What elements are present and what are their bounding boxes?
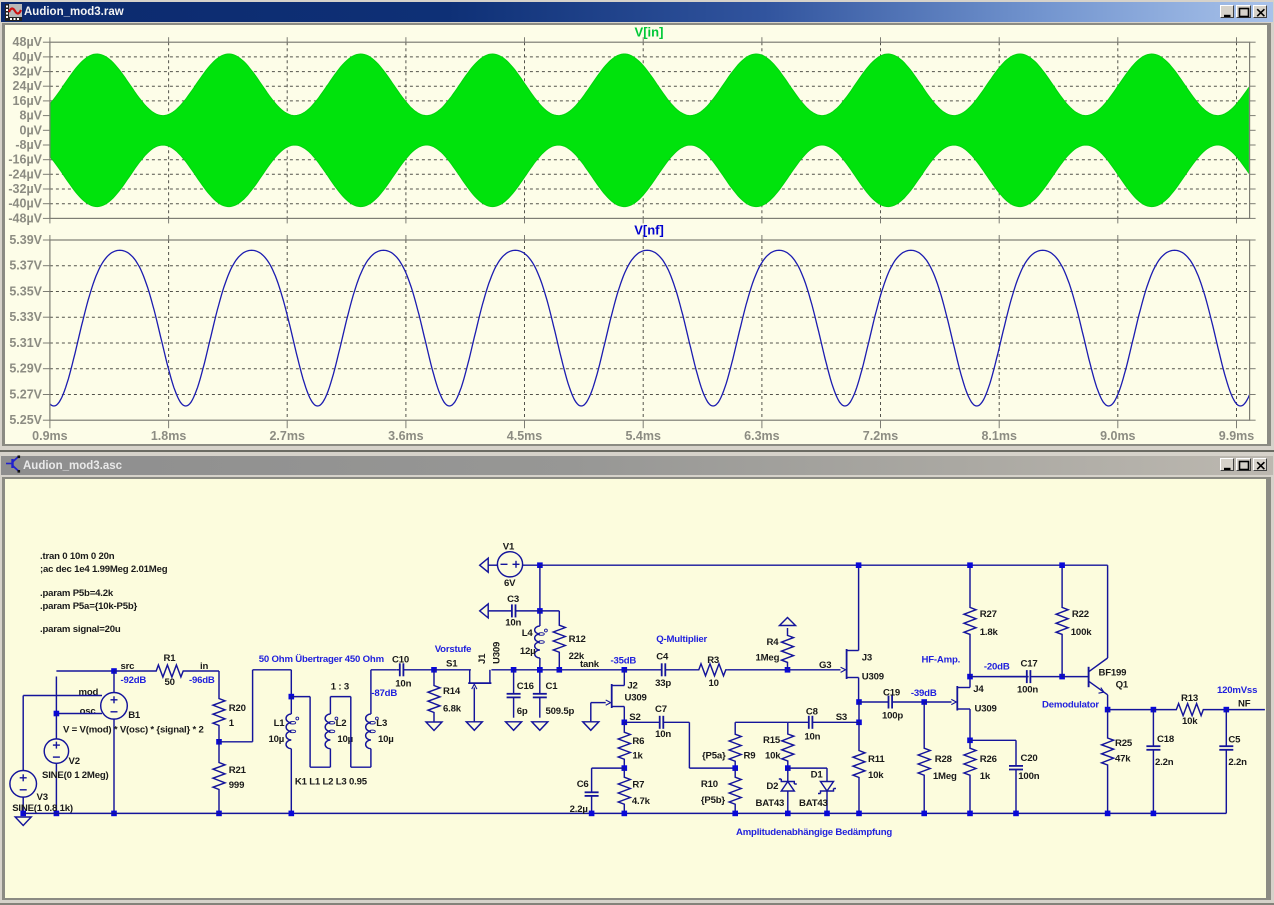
svg-text:9.9ms: 9.9ms <box>1219 429 1254 443</box>
ground flag R4 <box>780 618 796 626</box>
svg-text:J3: J3 <box>862 653 872 664</box>
resistor R3 <box>697 664 728 676</box>
svg-text:1: 1 <box>229 718 235 729</box>
svg-text:C4: C4 <box>656 652 669 663</box>
wire mod <box>23 695 102 697</box>
capacitor C8 <box>788 721 809 723</box>
svg-text:C1: C1 <box>546 681 559 692</box>
resistor R11 <box>853 722 865 813</box>
wire Q1 collector <box>1107 565 1109 658</box>
wire L1 top <box>290 670 292 697</box>
svg-text:BAT43: BAT43 <box>756 798 785 809</box>
svg-text:-24µV: -24µV <box>8 167 42 181</box>
svg-text:1.8ms: 1.8ms <box>151 429 186 443</box>
svg-text:C19: C19 <box>883 688 900 699</box>
svg-text:2.7ms: 2.7ms <box>269 429 304 443</box>
diode D2 BAT43 <box>781 782 794 792</box>
svg-text:-32µV: -32µV <box>8 182 42 196</box>
svg-text:SINE(0 1 2Meg): SINE(0 1 2Meg) <box>42 770 109 781</box>
resistor R9 <box>729 722 741 768</box>
resistor R1 <box>114 665 219 677</box>
svg-text:tank: tank <box>580 659 600 670</box>
svg-text:.param signal=20u: .param signal=20u <box>40 624 121 635</box>
resistor R12 <box>540 610 559 612</box>
wire tank 1 <box>514 669 540 671</box>
capacitor C7 <box>624 721 659 723</box>
svg-text:10µ: 10µ <box>269 734 285 745</box>
svg-text:Q1: Q1 <box>1116 680 1129 691</box>
svg-text:-8µV: -8µV <box>15 138 42 152</box>
svg-text:509.5p: 509.5p <box>546 706 575 717</box>
wire to C6 <box>592 767 625 769</box>
junction L1 top <box>289 694 295 700</box>
svg-text:-40µV: -40µV <box>8 197 42 211</box>
svg-text:2.2µ: 2.2µ <box>570 804 588 815</box>
svg-text:J4: J4 <box>973 684 984 695</box>
svg-text:Demodulator: Demodulator <box>1042 700 1099 711</box>
junction C16 <box>511 667 517 673</box>
resistor R10 <box>729 768 741 813</box>
wire osc stub <box>55 677 57 714</box>
svg-text:B1: B1 <box>128 710 141 721</box>
svg-text:S3: S3 <box>836 712 847 723</box>
svg-text:Q-Multiplier: Q-Multiplier <box>656 634 707 645</box>
capacitor C3 <box>488 610 512 612</box>
svg-text:R9: R9 <box>744 751 756 762</box>
capacitor C18 <box>1152 710 1154 747</box>
capacitor C10 <box>397 669 400 671</box>
svg-text:U309: U309 <box>492 642 503 664</box>
junction C6 ground <box>589 811 595 817</box>
svg-text:-20dB: -20dB <box>984 662 1010 673</box>
window 2: schematic Audion_mod3.asc <box>0 450 1274 905</box>
svg-text:999: 999 <box>229 780 244 791</box>
wire base Q1 <box>1062 676 1089 678</box>
svg-text:1Meg: 1Meg <box>756 653 780 664</box>
svg-text:10n: 10n <box>655 729 671 740</box>
svg-text:-87dB: -87dB <box>371 688 397 699</box>
wire S2-C8 mid <box>735 721 788 723</box>
node S2 <box>622 720 628 726</box>
svg-text:BF199: BF199 <box>1099 668 1127 679</box>
svg-text:{P5a}: {P5a} <box>702 751 726 762</box>
svg-text:1k: 1k <box>632 751 643 762</box>
junction L1 ground <box>289 811 295 817</box>
svg-text:.param P5a={10k-P5b}: .param P5a={10k-P5b} <box>40 601 138 612</box>
svg-text:L3: L3 <box>376 718 387 729</box>
junction C1 <box>537 667 543 673</box>
wire J1 drain to tank <box>491 669 513 671</box>
svg-text:100n: 100n <box>1018 771 1039 782</box>
svg-text:-92dB: -92dB <box>121 675 147 686</box>
wire J3 drain to rail <box>858 565 860 650</box>
svg-text:8µV: 8µV <box>20 109 43 123</box>
node R20-R21 <box>216 739 222 745</box>
svg-text:Amplitudenabhängige Bedämpfung: Amplitudenabhängige Bedämpfung <box>736 827 892 838</box>
voltage source V2 <box>55 714 57 739</box>
svg-text:5.4ms: 5.4ms <box>625 429 660 443</box>
svg-text:100p: 100p <box>882 711 903 722</box>
junction R11 ground <box>856 811 862 817</box>
wire D1 top <box>788 767 827 769</box>
svg-text:12µ: 12µ <box>520 646 536 657</box>
ground J1 gate <box>473 688 475 722</box>
svg-text:V3: V3 <box>37 792 48 803</box>
svg-text:0µV: 0µV <box>20 123 43 137</box>
svg-text:U309: U309 <box>975 704 997 715</box>
junction V2 ground <box>54 811 60 817</box>
resistor R14 <box>428 670 440 713</box>
diode D1 BAT43 <box>821 782 834 792</box>
svg-text:L4: L4 <box>522 628 534 639</box>
svg-text:R6: R6 <box>632 736 644 747</box>
svg-text:5.29V: 5.29V <box>9 362 42 376</box>
svg-text:1k: 1k <box>980 771 991 782</box>
resistor R27 <box>964 565 976 676</box>
ground C16 <box>506 722 522 731</box>
svg-text:5.39V: 5.39V <box>9 233 42 247</box>
svg-text:-39dB: -39dB <box>911 688 937 699</box>
wire in to R20 <box>218 671 220 689</box>
wire V1 to rail <box>523 564 540 566</box>
svg-text:120mVss: 120mVss <box>1217 685 1257 696</box>
wire C7 dogleg <box>688 722 690 768</box>
svg-text:5.37V: 5.37V <box>9 259 42 273</box>
svg-text:{P5b}: {P5b} <box>701 795 726 806</box>
svg-text:V2: V2 <box>69 756 80 767</box>
junction R9 bottom <box>732 765 738 771</box>
svg-text:.tran 0 10m 0 20n: .tran 0 10m 0 20n <box>40 551 115 562</box>
wire to C20 <box>970 739 1016 741</box>
svg-text:33p: 33p <box>655 678 671 689</box>
svg-text:10: 10 <box>709 678 719 689</box>
svg-text:24µV: 24µV <box>13 79 43 93</box>
ground symbol main <box>15 817 31 826</box>
junction osc <box>54 711 60 717</box>
resistor R20 <box>213 689 225 735</box>
capacitor C20 <box>1015 739 1017 741</box>
wire NF <box>1226 709 1265 711</box>
voltage source V3 <box>22 696 24 771</box>
resistor R13 <box>1153 704 1226 716</box>
svg-text:10µ: 10µ <box>378 734 394 745</box>
svg-text:1.8k: 1.8k <box>980 627 999 638</box>
svg-text:V1: V1 <box>503 542 515 553</box>
ground rail <box>23 812 1226 814</box>
capacitor C1 <box>539 670 541 694</box>
svg-text:D1: D1 <box>811 770 824 781</box>
resistor R25 <box>1102 710 1114 814</box>
svg-text:4.7k: 4.7k <box>632 796 651 807</box>
supply rail <box>540 564 1108 566</box>
svg-text:C18: C18 <box>1157 734 1175 745</box>
junction L4 tank <box>537 667 543 673</box>
wire L1-L2 link <box>291 696 310 698</box>
wire emitter to C18 <box>1108 709 1154 711</box>
voltage source V1 <box>497 552 522 577</box>
svg-text:C10: C10 <box>392 655 409 666</box>
junction C20 ground <box>1013 811 1019 817</box>
wire S1 to J1 <box>434 669 471 671</box>
inductor L1 <box>290 697 292 714</box>
svg-text:32µV: 32µV <box>13 65 43 79</box>
svg-text:16µV: 16µV <box>13 94 43 108</box>
svg-text:U309: U309 <box>625 693 647 704</box>
svg-text:10n: 10n <box>505 618 521 629</box>
capacitor C16 <box>513 670 515 694</box>
svg-text:D2: D2 <box>766 781 778 792</box>
junction R26 ground <box>967 811 973 817</box>
svg-text:R26: R26 <box>980 754 997 765</box>
svg-text:HF-Amp.: HF-Amp. <box>922 655 961 666</box>
svg-text:1 : 3: 1 : 3 <box>331 682 349 693</box>
junction R6 bottom <box>622 765 628 771</box>
svg-text:;ac dec 1e4 1.99Meg 2.01Meg: ;ac dec 1e4 1.99Meg 2.01Meg <box>40 564 168 575</box>
wire to transformer <box>219 741 253 743</box>
junction R10 ground <box>732 811 738 817</box>
wire to J4 gate <box>924 701 951 703</box>
svg-text:6V: 6V <box>504 578 516 589</box>
svg-text:5.31V: 5.31V <box>9 336 42 350</box>
junction J2 drain <box>622 667 628 673</box>
resistor R15 <box>782 722 794 768</box>
junction C18 <box>1151 707 1157 713</box>
node src <box>111 668 117 674</box>
svg-text:mod: mod <box>79 687 99 698</box>
behavioral source B1 <box>113 671 115 693</box>
svg-text:S2: S2 <box>629 712 640 723</box>
capacitor C17 <box>1000 676 1027 678</box>
svg-text:V = V(mod) * V(osc) * {signal}: V = V(mod) * V(osc) * {signal} * 2 <box>63 725 204 736</box>
svg-text:R12: R12 <box>569 634 586 645</box>
svg-text:R14: R14 <box>443 686 461 697</box>
junction C3 node <box>537 608 543 614</box>
svg-text:47k: 47k <box>1115 754 1131 765</box>
inductor L4 <box>539 611 541 626</box>
wire J3 source down <box>858 678 860 703</box>
svg-text:R11: R11 <box>868 754 885 765</box>
svg-text:10k: 10k <box>868 770 884 781</box>
svg-text:R4: R4 <box>767 637 780 648</box>
svg-text:R22: R22 <box>1072 609 1089 620</box>
svg-text:C5: C5 <box>1228 735 1241 746</box>
svg-text:R25: R25 <box>1115 738 1133 749</box>
ground flag C3 <box>480 604 489 618</box>
svg-text:6.3ms: 6.3ms <box>744 429 779 443</box>
junction Q1 emitter <box>1105 707 1111 713</box>
svg-text:R7: R7 <box>632 780 644 791</box>
svg-text:-35dB: -35dB <box>611 656 637 667</box>
svg-text:C20: C20 <box>1021 753 1038 764</box>
svg-text:2.2n: 2.2n <box>1228 757 1247 768</box>
svg-text:S1: S1 <box>446 659 458 670</box>
svg-text:10n: 10n <box>395 679 411 690</box>
capacitor C6 <box>591 790 593 792</box>
svg-text:L1: L1 <box>274 718 286 729</box>
junction V1 rail <box>537 562 543 568</box>
junction C18 ground <box>1151 811 1157 817</box>
svg-text:0.9ms: 0.9ms <box>32 429 67 443</box>
svg-text:NF: NF <box>1238 699 1251 710</box>
svg-text:48µV: 48µV <box>13 35 43 49</box>
capacitor C5 <box>1225 710 1227 747</box>
svg-text:R1: R1 <box>164 653 177 664</box>
svg-text:8.1ms: 8.1ms <box>981 429 1016 443</box>
svg-text:V[nf]: V[nf] <box>634 223 664 238</box>
resistor R22 <box>1056 565 1068 676</box>
svg-text:10n: 10n <box>804 732 820 743</box>
junction J4 drain <box>967 674 973 680</box>
svg-text:.param P5b=4.2k: .param P5b=4.2k <box>40 588 114 599</box>
wire J4 drain up <box>969 677 971 688</box>
wire R27 node to C17 <box>970 676 1029 678</box>
resistor R7 <box>618 768 630 813</box>
svg-text:-16µV: -16µV <box>8 153 42 167</box>
capacitor C19 <box>859 701 889 703</box>
svg-text:U309: U309 <box>862 672 884 683</box>
junction D1 ground <box>824 811 830 817</box>
svg-text:C3: C3 <box>507 594 519 605</box>
svg-text:C17: C17 <box>1021 659 1038 670</box>
junction R15 bottom <box>785 765 791 771</box>
svg-text:L2: L2 <box>336 718 347 729</box>
svg-text:6.8k: 6.8k <box>443 704 462 715</box>
svg-text:R20: R20 <box>229 703 246 714</box>
inductor L2 <box>325 714 330 749</box>
resistor R28 <box>918 702 930 813</box>
svg-text:3.6ms: 3.6ms <box>388 429 423 443</box>
jfet J2 U309 <box>623 670 625 686</box>
wire tank 2 <box>540 669 625 671</box>
svg-text:-96dB: -96dB <box>189 675 215 686</box>
jfet J3 U309 <box>846 649 848 679</box>
svg-text:5.33V: 5.33V <box>9 310 42 324</box>
wire R3 to G3 <box>728 669 788 671</box>
svg-text:4.5ms: 4.5ms <box>507 429 542 443</box>
svg-text:R21: R21 <box>229 765 247 776</box>
junction D2 ground <box>785 811 791 817</box>
wire J2 gate <box>591 702 606 704</box>
junction C17 right <box>1059 674 1065 680</box>
svg-text:-48µV: -48µV <box>8 211 42 225</box>
svg-text:6p: 6p <box>517 706 528 717</box>
ground flag V1 <box>488 564 497 566</box>
window 1: waveform viewer Audion_mod3.raw <box>0 0 1274 450</box>
ground R14 <box>433 713 435 722</box>
capacitor C4 <box>624 669 661 671</box>
svg-text:C6: C6 <box>577 779 589 790</box>
svg-text:C8: C8 <box>806 707 819 718</box>
svg-text:5.27V: 5.27V <box>9 388 42 402</box>
resistor R4 <box>782 628 794 670</box>
junction J3 rail <box>856 562 862 568</box>
junction R25 ground <box>1105 811 1111 817</box>
jfet J4 U309 <box>956 686 958 711</box>
junction B1 ground <box>111 811 117 817</box>
svg-text:C7: C7 <box>655 704 667 715</box>
svg-text:in: in <box>200 661 208 672</box>
junction R21 ground <box>216 811 222 817</box>
junction R7 ground <box>622 811 628 817</box>
wire J2 source to S2 <box>623 707 625 723</box>
junction C19 node <box>856 699 862 705</box>
wire L3 top <box>370 670 372 714</box>
wire L2-L3 link <box>329 697 331 714</box>
junction V3 ground <box>20 811 26 817</box>
junction R12 tank <box>557 667 563 673</box>
wire rail down to C3 node <box>539 565 541 611</box>
svg-text:R28: R28 <box>935 754 953 765</box>
svg-text:7.2ms: 7.2ms <box>863 429 898 443</box>
wire to S3 <box>858 702 860 722</box>
svg-text:5.25V: 5.25V <box>9 413 42 427</box>
svg-text:R10: R10 <box>701 779 718 790</box>
svg-text:R13: R13 <box>1181 693 1198 704</box>
junction R28 node <box>921 699 927 705</box>
junction R28 ground <box>921 811 927 817</box>
junction G3 <box>785 667 791 673</box>
svg-text:50: 50 <box>165 677 175 688</box>
wire src top <box>56 670 114 672</box>
node S1 <box>431 667 437 673</box>
wire osc <box>56 713 102 715</box>
svg-text:R27: R27 <box>980 609 997 620</box>
ground J2 gate <box>583 722 599 731</box>
resistor R6 <box>618 722 630 768</box>
resistor R26 <box>964 740 976 813</box>
wire Q1 emitter <box>1107 695 1109 710</box>
svg-text:10k: 10k <box>1182 716 1198 727</box>
svg-text:J1: J1 <box>477 653 488 664</box>
svg-text:1Meg: 1Meg <box>933 771 957 782</box>
svg-text:40µV: 40µV <box>13 50 43 64</box>
inductor L3 <box>366 714 371 749</box>
svg-text:R15: R15 <box>763 735 781 746</box>
wire J4 source down <box>969 709 971 740</box>
svg-text:BAT43: BAT43 <box>799 798 828 809</box>
node S3 <box>856 720 862 726</box>
svg-text:Vorstufe: Vorstufe <box>435 644 472 655</box>
svg-text:J2: J2 <box>627 681 637 692</box>
svg-text:9.0ms: 9.0ms <box>1100 429 1135 443</box>
svg-text:100k: 100k <box>1071 627 1092 638</box>
resistor R21 <box>213 742 225 814</box>
svg-text:K1 L1 L2 L3 0.95: K1 L1 L2 L3 0.95 <box>295 777 368 788</box>
svg-text:50 Ohm Übertrager 450 Ohm: 50 Ohm Übertrager 450 Ohm <box>259 654 384 665</box>
junction R26 node <box>967 738 973 744</box>
junction R27 rail <box>967 562 973 568</box>
svg-text:5.35V: 5.35V <box>9 285 42 299</box>
svg-text:R3: R3 <box>707 655 719 666</box>
svg-text:100n: 100n <box>1017 685 1038 696</box>
ground C1 <box>532 722 548 731</box>
svg-text:C16: C16 <box>517 681 534 692</box>
junction R22 rail <box>1059 562 1065 568</box>
transistor Q1 BF199 <box>1088 667 1090 687</box>
wire G3 to J3 <box>788 669 841 671</box>
svg-text:2.2n: 2.2n <box>1155 757 1174 768</box>
svg-text:V[in]: V[in] <box>635 25 664 40</box>
jfet J1 U309 <box>468 682 491 684</box>
junction C5 <box>1224 707 1230 713</box>
svg-text:10k: 10k <box>765 751 781 762</box>
svg-text:osc: osc <box>80 706 97 717</box>
